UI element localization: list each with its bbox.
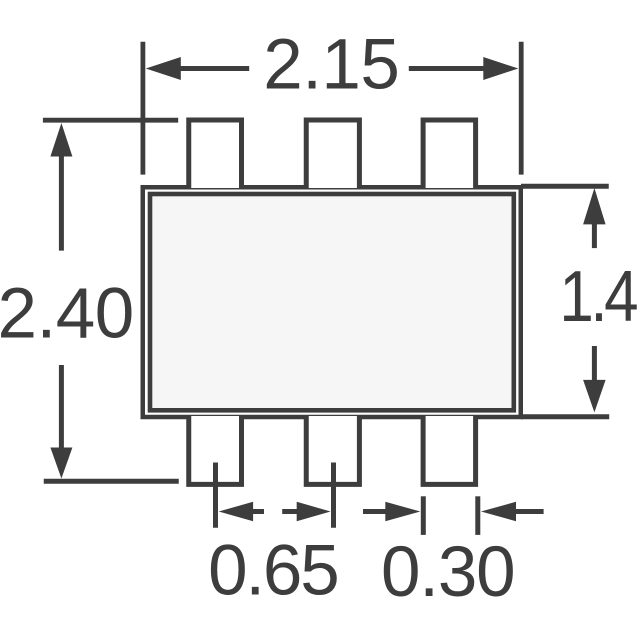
svg-text:1.4: 1.4 xyxy=(559,257,637,337)
svg-text:2.40: 2.40 xyxy=(0,274,134,353)
dimension 0.65 right extension line (pin 5 center) xyxy=(331,463,336,528)
dimension 2.15 left extension line xyxy=(140,42,145,175)
dimension 2.15 left arrow xyxy=(146,57,249,80)
dimension 1.4 top extension line xyxy=(521,184,609,189)
dimension 0.65 right arrow xyxy=(282,502,330,521)
dimension 1.4 bottom extension line xyxy=(521,414,609,419)
svg-text:0.30: 0.30 xyxy=(381,533,514,612)
dimension 1.4 up arrow xyxy=(583,188,606,248)
pin 4 bottom lead xyxy=(189,416,242,484)
dimension 2.15 right extension line xyxy=(519,42,524,175)
package body outer outline xyxy=(143,187,521,417)
pin 3 top lead xyxy=(423,120,476,188)
package body inner outline xyxy=(150,194,514,410)
dimension 2.40 bottom extension line xyxy=(44,479,179,484)
pin 1 top lead xyxy=(189,120,242,188)
svg-text:0.65: 0.65 xyxy=(208,532,337,611)
dimension 0.65 left extension line (pin 4 center) xyxy=(213,463,218,528)
dimension 2.15 right arrow xyxy=(409,57,519,80)
dimension 0.30 left arrow (outside, pointing right) xyxy=(363,502,420,521)
dimension 2.40 top extension line xyxy=(43,118,178,123)
dimension 0.30 left tick line (pin 6 left edge) xyxy=(421,496,426,535)
dimension 1.4 down arrow xyxy=(583,346,606,412)
dimension 2.40 down arrow xyxy=(50,365,72,479)
dimension 0.30 right arrow (outside, pointing left) xyxy=(481,502,544,521)
pin 5 bottom lead xyxy=(306,416,359,484)
pin 2 top lead xyxy=(306,120,359,188)
dimension 0.30 right tick line (pin 6 right edge) xyxy=(475,496,480,535)
dimension 0.65 left arrow xyxy=(219,502,264,521)
dimension 2.40 up arrow xyxy=(50,123,72,251)
pin 6 bottom lead xyxy=(423,416,476,484)
svg-text:2.15: 2.15 xyxy=(263,26,399,105)
